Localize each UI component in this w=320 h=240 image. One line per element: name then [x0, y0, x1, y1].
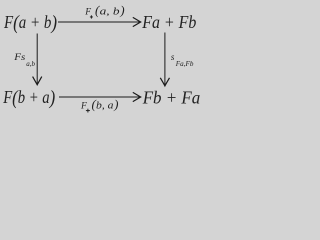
right arrowhead	[160, 78, 169, 86]
svg-text:F(b + a): F(b + a)	[2, 87, 55, 109]
svg-text:Fa + Fb: Fa + Fb	[141, 12, 196, 32]
wire top arrow shaft	[58, 21, 140, 23]
svg-text:Fb + Fa: Fb + Fa	[142, 87, 200, 107]
wire left arrow shaft	[36, 34, 38, 84]
wire bottom arrow shaft	[59, 96, 140, 98]
left arrowhead	[33, 77, 42, 85]
wire right arrow shaft	[164, 33, 166, 85]
top arrowhead	[133, 17, 141, 26]
svg-text:F (a, b): F (a, b)	[84, 2, 124, 19]
svg-text:F (b, a): F (b, a)	[80, 96, 118, 113]
label subscript + (bottom)	[86, 109, 90, 113]
svg-text:F(a + b): F(a + b)	[3, 12, 57, 34]
svg-text:Fs a,b: Fs a,b	[13, 47, 35, 68]
svg-text:s Fa,Fb: s Fa,Fb	[171, 47, 194, 68]
bottom arrowhead	[133, 92, 141, 101]
label subscript + (top)	[90, 15, 93, 18]
